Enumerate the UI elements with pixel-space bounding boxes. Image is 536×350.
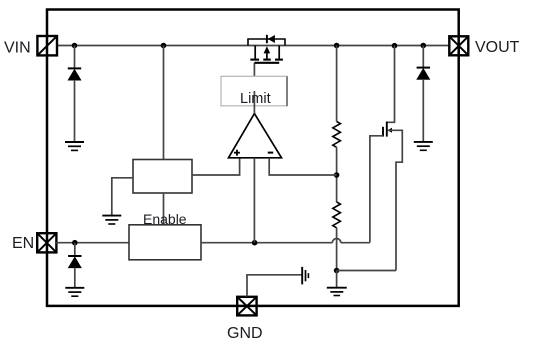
wire gate to Limit block (253, 63, 255, 77)
svg-text:Enable: Enable (143, 211, 187, 227)
block Enable (129, 225, 201, 260)
diode D2 VOUT ESD (417, 68, 430, 80)
wire rail to reference box (163, 46, 165, 160)
wire ground node stub (336, 271, 338, 288)
svg-text:VIN: VIN (4, 40, 31, 57)
wire hop to Q2 gate riser (341, 242, 370, 244)
node VOUT ESD tap (421, 43, 427, 49)
wire Q2 gate (370, 136, 383, 243)
wire Q2 source loop (387, 130, 402, 270)
wire EN pin to Enable block (56, 242, 129, 244)
wire hop over divider (332, 239, 340, 243)
wire ground node to Q2 source (337, 270, 396, 272)
wire Enable block to feedback net (201, 242, 332, 244)
wire GND pin riser (247, 275, 302, 297)
wire reference to op-amp plus input (192, 158, 240, 175)
diode D1 VIN ESD (68, 68, 81, 80)
wire Q2 drain (387, 46, 395, 123)
node Q2 drain tap (392, 43, 398, 49)
wire reference to enable block (163, 193, 165, 225)
pin EN (37, 233, 56, 252)
wire Limit block to op-amp output (253, 91, 255, 114)
transistor Q1 pass PMOS (248, 39, 285, 63)
node bandgap tap (161, 43, 167, 49)
wire EN ESD diode bottom (74, 268, 76, 288)
transistor Q2 discharge NMOS (383, 122, 392, 137)
pin GND (237, 297, 256, 316)
op-amp U1 error amplifier (229, 114, 282, 158)
pin VOUT (449, 36, 468, 55)
node VIN junction (72, 43, 78, 49)
ground internal (327, 288, 347, 296)
svg-text:GND: GND (227, 325, 263, 342)
node EN junction (72, 240, 78, 246)
resistor R2 (333, 202, 341, 228)
wire op-amp tail (253, 158, 255, 243)
node divider top (334, 43, 340, 49)
node op-amp tail (252, 240, 258, 246)
wire R2 to ground node (336, 228, 338, 271)
wire EN ESD diode top (74, 243, 76, 256)
ground reference (102, 216, 121, 224)
node internal ground (334, 268, 340, 274)
svg-text:EN: EN (12, 235, 34, 252)
wire VIN ESD diode bottom (74, 80, 76, 142)
IC boundary box (47, 10, 459, 306)
ground VOUT ESD (414, 142, 433, 150)
wire VOUT ESD diode top (422, 46, 424, 68)
node feedback (334, 172, 340, 178)
ground EN ESD (65, 288, 84, 296)
reference block U2 (133, 160, 192, 194)
wire op-amp minus input (269, 158, 336, 175)
svg-text:Limit: Limit (240, 91, 271, 107)
wire R1 to feedback node (336, 147, 338, 202)
diode D3 EN ESD (68, 256, 81, 268)
svg-text:VOUT: VOUT (475, 39, 520, 56)
resistor R1 (333, 122, 341, 148)
ground VIN ESD (65, 142, 84, 150)
wire VIN-VOUT main rail (57, 45, 449, 47)
wire VOUT ESD diode bottom (422, 79, 424, 142)
diode Q1 body (267, 35, 275, 43)
pin VIN (37, 36, 57, 55)
ground sideways GND pin (302, 267, 308, 285)
wire reference to ground (112, 178, 133, 216)
wire rail to R1 (336, 46, 338, 122)
block current Limit (221, 76, 287, 106)
wire VIN ESD diode top (74, 46, 76, 69)
